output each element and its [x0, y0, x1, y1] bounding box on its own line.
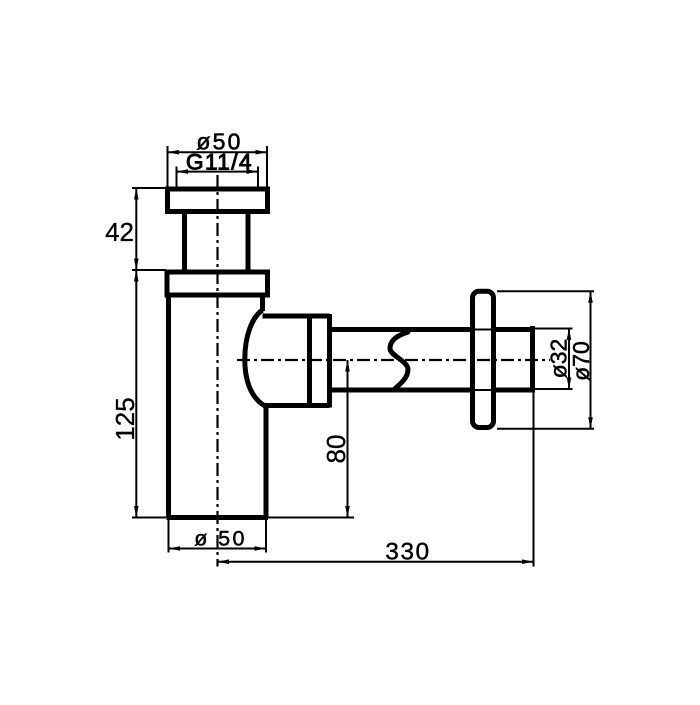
dim ø50 bottom: extension lines — [168, 520, 170, 553]
outlet mid ring line — [307, 316, 312, 406]
arrow ø50 top right — [256, 150, 268, 155]
arrow ø50 bottom right — [255, 546, 267, 551]
svg-text:80: 80 — [321, 435, 351, 464]
dim ø50 top: extension lines — [167, 146, 169, 187]
dim 125: dimension line — [135, 270, 137, 518]
arrow ø70 top — [588, 291, 593, 303]
body left wall — [166, 295, 171, 518]
pipe break S-line — [390, 332, 408, 389]
arrow 330 left — [218, 559, 230, 564]
wall flange — [473, 291, 494, 427]
svg-text:330: 330 — [385, 539, 430, 566]
pipe top edge right of wall flange — [496, 327, 532, 332]
outlet bottom edge — [263, 403, 330, 408]
arrow ø32 bottom — [567, 378, 572, 390]
arrow ø50 bottom left — [169, 546, 181, 551]
dim 125: bottom extension line — [132, 517, 166, 519]
outlet ring right edge — [327, 314, 332, 408]
arrow 125 top — [134, 270, 139, 282]
pipe bottom edge right of wall flange — [496, 388, 532, 393]
dim ø50 top: dimension line — [168, 151, 268, 153]
dim G11/4: extension lines — [176, 167, 178, 188]
body right wall upper — [260, 295, 265, 311]
dim ø32: dimension line — [568, 329, 570, 390]
svg-text:ø70: ø70 — [568, 341, 594, 381]
pipe top edge through flange (thin) — [471, 329, 494, 331]
arrow 330 right — [522, 559, 534, 564]
top cap flange — [168, 189, 268, 212]
dim 42: extension lines — [132, 187, 166, 189]
arrow ø50 top left — [168, 150, 180, 155]
body right wall lower — [264, 406, 269, 518]
dim ø70: dimension line — [590, 291, 592, 428]
arrow G11/4 left — [177, 169, 189, 174]
pipe end cap — [530, 326, 535, 393]
pipe top edge left of wall flange — [330, 327, 471, 332]
vertical centerline — [216, 175, 218, 567]
dim ø50 bottom: dimension line — [169, 548, 267, 550]
arrow 125 bottom — [134, 506, 139, 518]
body bottom — [167, 515, 269, 520]
neck right wall — [246, 213, 251, 270]
neck left wall — [182, 213, 187, 270]
dim 42: dimension line — [135, 188, 137, 270]
arrow ø32 top — [567, 329, 572, 341]
dim 80: bottom extension line — [268, 517, 354, 519]
dim G11/4: dimension line — [177, 171, 259, 173]
dim 80: dimension line — [347, 360, 349, 518]
pipe bottom edge left of wall flange — [330, 388, 471, 393]
dim 330: right extension line — [533, 393, 535, 567]
svg-text:ø 50: ø 50 — [194, 527, 247, 551]
arrow 42 bottom — [134, 259, 139, 271]
arrow 80 bottom — [345, 506, 350, 518]
svg-text:G11/4: G11/4 — [186, 150, 253, 175]
outlet top edge — [263, 314, 330, 319]
body collar — [167, 272, 268, 295]
svg-text:42: 42 — [105, 217, 134, 247]
arrow ø70 bottom — [588, 417, 593, 429]
svg-text:125: 125 — [110, 397, 140, 440]
horizontal centerline — [237, 359, 550, 361]
outlet bulge curve — [245, 310, 266, 407]
arrow 80 top — [345, 360, 350, 372]
dim ø32: extension lines — [535, 328, 573, 330]
pipe bottom edge through flange (thin) — [471, 389, 494, 391]
dim ø70: extension lines — [497, 290, 594, 292]
arrow G11/4 right — [247, 169, 259, 174]
arrow 42 top — [134, 188, 139, 200]
dim 330: dimension line — [218, 561, 534, 563]
